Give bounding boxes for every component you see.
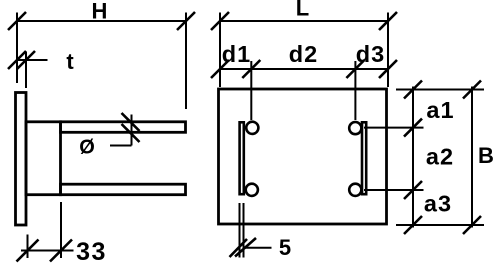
dimension H right tick [177,12,195,30]
svg-text:d3: d3 [356,41,385,67]
diameter tick bottom [122,124,140,142]
plate (front view, right) [219,89,387,224]
dimension L left extension [219,13,221,88]
plate (side view, left) [16,93,27,226]
svg-text:B: B [478,143,494,168]
right slot bottom hole [349,184,361,196]
right slot top hole [349,122,361,134]
dimension L right extension [387,13,389,88]
dimension L right tick [379,12,397,30]
d line tick 3 [346,60,364,78]
hub block (side view) [26,122,61,195]
svg-text:t: t [66,49,74,74]
dimension 5 left extension [239,203,241,258]
tick B top [463,81,481,99]
tick a upper hole [404,119,422,137]
tick a lower hole [404,181,422,199]
d extension right hole [354,61,356,120]
B dimension line [471,87,473,228]
svg-text:Ø: Ø [79,137,95,159]
svg-text:H: H [92,0,108,24]
dimension 33 right extension [60,202,62,258]
dimension t left tick [8,51,26,69]
dimension 5 right extension [243,203,245,258]
dimension L line [220,20,388,22]
svg-text:d1: d1 [222,41,251,67]
dimension 33 line [21,250,74,252]
svg-text:a2: a2 [426,144,454,170]
tick B bottom [463,216,481,234]
dimension L left tick [211,12,229,30]
dimension H right extension [185,13,187,110]
dimension t line [17,59,48,61]
right slot [362,122,366,194]
dimension 33 left extension [27,235,29,259]
dimension H left tick [8,12,26,30]
tick a top [404,81,422,99]
dimension 5 leader [244,247,272,249]
dimension 33 right tick [50,240,72,262]
dimension t right extension [25,52,27,89]
svg-text:a1: a1 [426,97,454,123]
dimension t right tick [17,51,35,69]
svg-text:L: L [296,0,309,21]
dimension H left extension [16,13,18,84]
left slot [240,122,244,194]
svg-text:33: 33 [76,238,107,264]
svg-text:a3: a3 [424,191,452,217]
svg-text:5: 5 [279,235,291,260]
diameter tick top [122,113,140,131]
bottom extension line [396,224,484,226]
d extension left hole [250,61,252,120]
dimension 5 tick 2 [235,238,256,257]
d line tick 1 [211,60,229,78]
top extension line [396,89,484,91]
lower hole extension line [364,189,424,191]
diameter leader vertical [131,115,133,146]
left slot bottom hole [246,184,258,196]
dimension H line [17,20,186,22]
a dimension line [412,87,414,228]
dimension 33 left tick [17,240,39,262]
svg-text:d2: d2 [289,41,318,67]
upper hole extension line [364,127,424,129]
diameter leader horizontal [110,145,132,147]
bottom bar (side view) [61,184,186,195]
d line tick 2 [242,60,260,78]
d line tick 4 [379,60,397,78]
dimension 5 tick 1 [230,239,248,257]
tick a bottom [404,216,422,234]
top bar (side view) [61,122,186,133]
left slot top hole [246,122,258,134]
dimension d1 d2 d3 line [220,68,388,70]
